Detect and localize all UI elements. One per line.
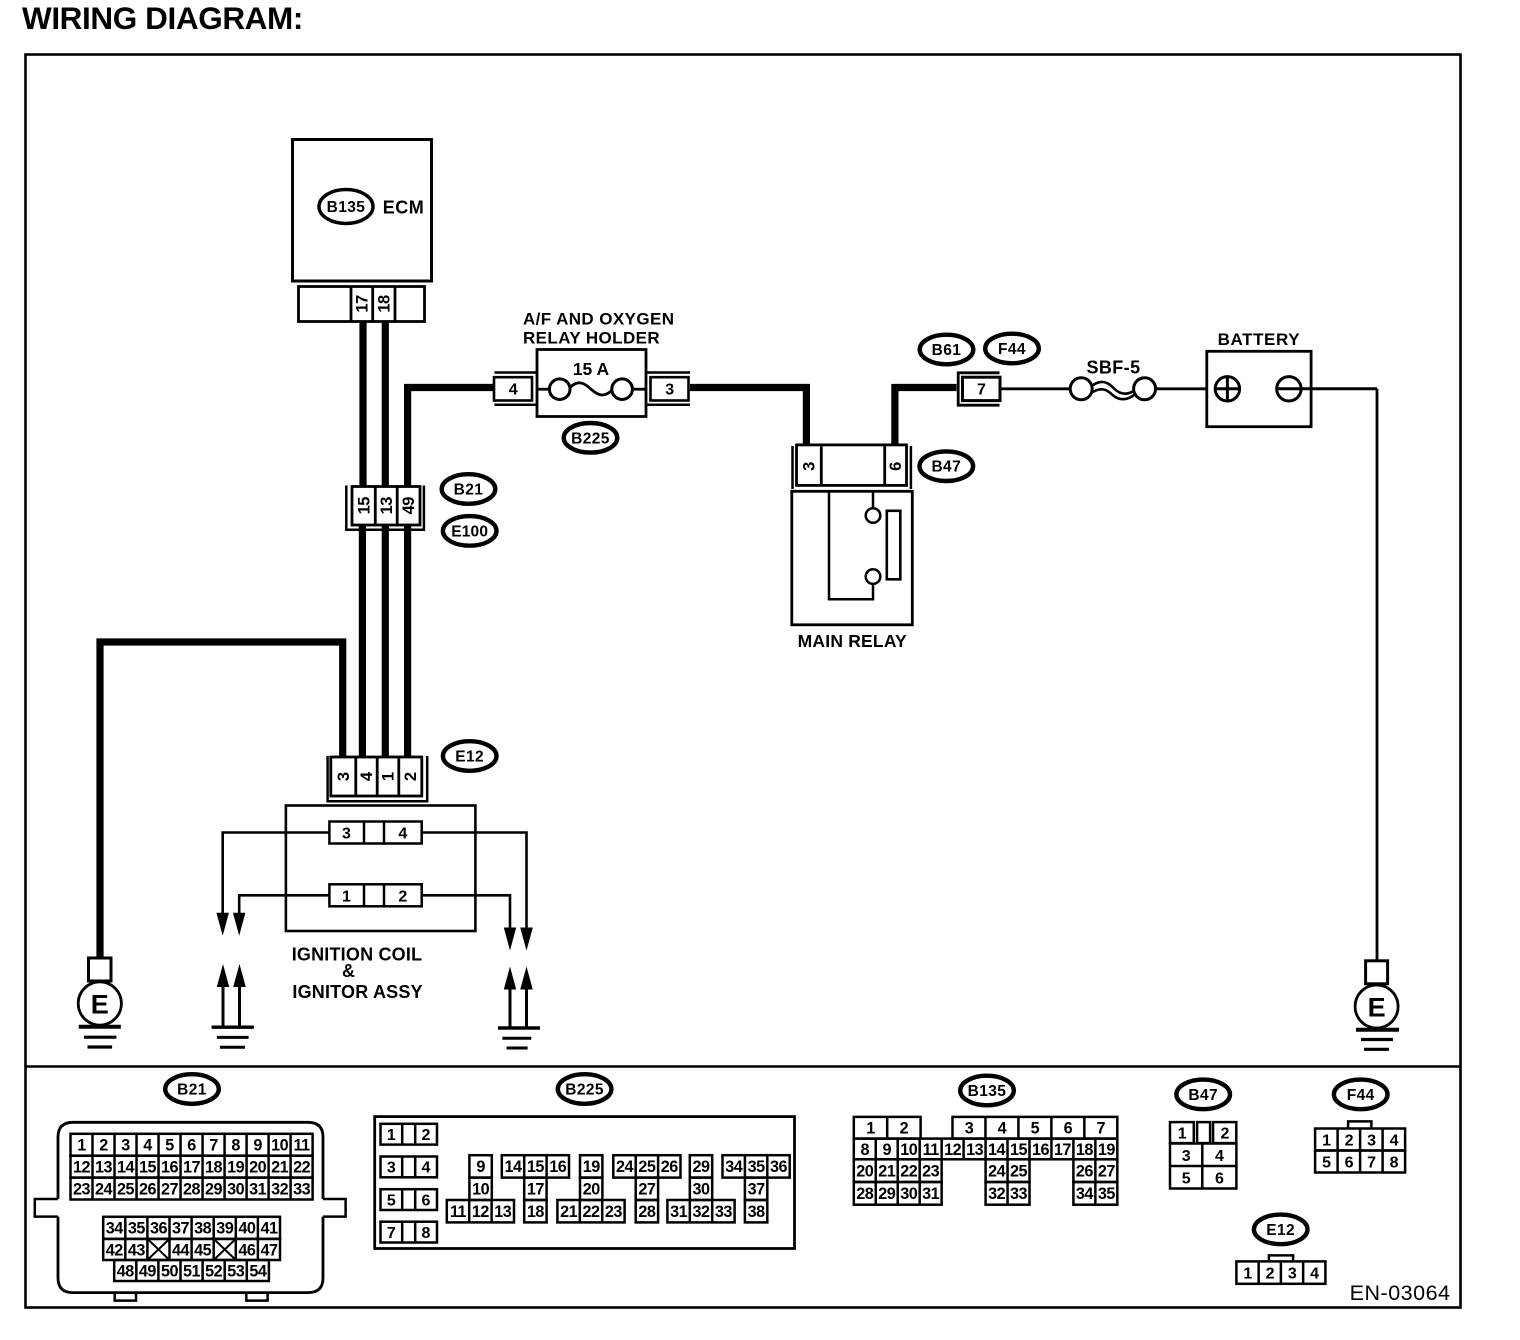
- svg-text:54: 54: [249, 1262, 267, 1280]
- svg-text:43: 43: [128, 1241, 146, 1259]
- svg-text:3: 3: [665, 382, 674, 399]
- svg-text:15: 15: [355, 497, 373, 515]
- F44 housing tab: [1348, 1121, 1371, 1128]
- B135 pins 8-19: [854, 1139, 1118, 1160]
- svg-text:B47: B47: [931, 459, 961, 476]
- svg-text:WIRING DIAGRAM:: WIRING DIAGRAM:: [22, 0, 303, 36]
- wire main relay pin6 to connector B61 pin7: [895, 388, 957, 447]
- connector label F44 bottom: [1334, 1080, 1388, 1110]
- ground symbol spark right: [498, 1026, 540, 1029]
- fuse symbol element: [570, 383, 612, 395]
- svg-text:51: 51: [183, 1262, 201, 1280]
- svg-text:15: 15: [527, 1158, 545, 1176]
- svg-text:33: 33: [715, 1203, 733, 1221]
- svg-text:18: 18: [1076, 1141, 1094, 1159]
- svg-text:34: 34: [106, 1220, 124, 1238]
- svg-text:B21: B21: [454, 482, 484, 499]
- B21 pins 42-47 with keyed cells: [103, 1239, 280, 1260]
- svg-text:IGNITOR ASSY: IGNITOR ASSY: [292, 982, 422, 1002]
- svg-text:31: 31: [670, 1203, 688, 1221]
- wire ECM pin18 to B21 pin13: [382, 321, 389, 487]
- connector B21 housing: [58, 1122, 323, 1292]
- connector label B61: [920, 335, 974, 365]
- svg-text:47: 47: [260, 1241, 278, 1259]
- svg-text:38: 38: [748, 1203, 766, 1221]
- svg-text:7: 7: [977, 382, 986, 399]
- svg-text:8: 8: [861, 1141, 870, 1159]
- battery plus terminal: [1215, 377, 1239, 401]
- svg-text:RELAY HOLDER: RELAY HOLDER: [523, 329, 660, 348]
- ignition coil box: [286, 806, 476, 932]
- svg-text:30: 30: [692, 1181, 710, 1199]
- svg-text:41: 41: [260, 1220, 278, 1238]
- svg-text:36: 36: [770, 1158, 788, 1176]
- main relay contact upper: [866, 508, 881, 523]
- wire ECM pin17 to B21 pin15: [359, 321, 366, 487]
- svg-text:4: 4: [1390, 1132, 1399, 1149]
- fuse symbol left terminal: [549, 379, 570, 400]
- relay holder connector 4 rails: [495, 371, 538, 374]
- svg-text:35: 35: [748, 1158, 766, 1176]
- svg-text:23: 23: [73, 1180, 91, 1198]
- svg-text:4: 4: [358, 771, 376, 781]
- connector label F44: [985, 334, 1039, 364]
- svg-text:6: 6: [1215, 1170, 1224, 1187]
- svg-text:24: 24: [95, 1180, 113, 1198]
- spark gap arrows right down: [504, 928, 516, 951]
- svg-text:9: 9: [253, 1137, 262, 1155]
- svg-text:1: 1: [380, 772, 398, 781]
- fuse SBF-5 right terminal: [1134, 378, 1156, 400]
- svg-text:1: 1: [1243, 1265, 1252, 1282]
- B21 pins 34-41: [103, 1217, 280, 1239]
- svg-text:37: 37: [748, 1181, 766, 1199]
- B135 pins 20-23: [854, 1159, 942, 1182]
- svg-text:33: 33: [293, 1180, 311, 1198]
- svg-text:32: 32: [988, 1185, 1006, 1203]
- svg-text:40: 40: [238, 1220, 256, 1238]
- spark gap arrows right up: [504, 967, 516, 990]
- B47 pins 3-6: [1170, 1144, 1236, 1189]
- svg-text:45: 45: [194, 1241, 212, 1259]
- ground symbol left: [79, 1025, 121, 1029]
- connector E12 bracket: [328, 756, 428, 801]
- svg-text:35: 35: [1098, 1185, 1116, 1203]
- svg-text:E: E: [1368, 992, 1386, 1022]
- svg-text:3: 3: [1182, 1148, 1191, 1165]
- ground E left circle: [78, 982, 121, 1025]
- svg-text:17: 17: [527, 1181, 545, 1199]
- svg-text:28: 28: [856, 1185, 874, 1203]
- svg-text:9: 9: [476, 1158, 485, 1176]
- svg-text:2: 2: [1345, 1132, 1354, 1149]
- svg-text:31: 31: [922, 1185, 940, 1203]
- svg-text:10: 10: [900, 1141, 918, 1159]
- svg-text:4: 4: [143, 1137, 152, 1155]
- svg-text:&: &: [342, 961, 355, 981]
- svg-text:12: 12: [73, 1158, 91, 1176]
- svg-text:18: 18: [375, 295, 393, 313]
- svg-text:21: 21: [271, 1158, 289, 1176]
- svg-text:5: 5: [1182, 1170, 1191, 1187]
- svg-text:25: 25: [638, 1158, 656, 1176]
- svg-text:50: 50: [161, 1262, 179, 1280]
- fuse symbol right terminal: [612, 379, 633, 400]
- svg-text:12: 12: [472, 1203, 490, 1221]
- connector label B47 bottom: [1176, 1080, 1230, 1110]
- B21 housing bottom tabs: [115, 1293, 136, 1301]
- wire B21 pin15 to E12 pin4: [359, 524, 366, 757]
- B225 pins 34-38 group: [723, 1155, 790, 1177]
- wire B21 pin13 to E12 pin1: [382, 524, 389, 757]
- svg-text:4: 4: [509, 382, 518, 399]
- svg-text:F44: F44: [1347, 1087, 1375, 1104]
- svg-text:6: 6: [1064, 1120, 1073, 1138]
- svg-text:14: 14: [504, 1158, 522, 1176]
- svg-text:12: 12: [944, 1141, 962, 1159]
- B47 pin 1: [1170, 1122, 1194, 1143]
- svg-text:16: 16: [549, 1158, 567, 1176]
- svg-text:B61: B61: [932, 342, 962, 359]
- svg-text:36: 36: [150, 1220, 168, 1238]
- svg-text:11: 11: [450, 1203, 467, 1221]
- svg-text:28: 28: [638, 1203, 656, 1221]
- svg-text:44: 44: [172, 1241, 190, 1259]
- battery box: [1207, 351, 1311, 426]
- svg-text:ECM: ECM: [383, 197, 425, 217]
- svg-text:27: 27: [1098, 1162, 1116, 1180]
- connector label B21: [442, 474, 496, 504]
- B225 pins 24-28 group: [613, 1155, 680, 1177]
- svg-text:B47: B47: [1188, 1087, 1218, 1104]
- svg-text:30: 30: [900, 1185, 918, 1203]
- svg-text:14: 14: [988, 1141, 1006, 1159]
- connector label E12 bottom: [1254, 1215, 1308, 1245]
- svg-text:1: 1: [1322, 1132, 1331, 1149]
- svg-text:13: 13: [95, 1158, 113, 1176]
- svg-text:27: 27: [638, 1181, 656, 1199]
- main relay armature bar: [887, 511, 901, 580]
- svg-text:4: 4: [398, 826, 407, 843]
- svg-text:6: 6: [887, 462, 905, 471]
- svg-text:15: 15: [139, 1158, 157, 1176]
- svg-text:5: 5: [165, 1137, 174, 1155]
- svg-text:B135: B135: [327, 199, 366, 216]
- svg-text:1: 1: [77, 1137, 86, 1155]
- main relay body: [792, 491, 913, 625]
- svg-text:52: 52: [205, 1262, 223, 1280]
- svg-text:18: 18: [205, 1158, 223, 1176]
- svg-text:53: 53: [227, 1262, 245, 1280]
- svg-text:6: 6: [1345, 1154, 1354, 1171]
- svg-text:5: 5: [387, 1192, 396, 1209]
- svg-text:19: 19: [227, 1158, 245, 1176]
- main relay coil circuit: [829, 492, 873, 599]
- svg-text:B21: B21: [177, 1082, 207, 1099]
- svg-text:49: 49: [400, 497, 418, 515]
- svg-text:3: 3: [965, 1120, 974, 1138]
- svg-text:25: 25: [1010, 1162, 1028, 1180]
- F44 pins 1-4: [1315, 1129, 1405, 1151]
- svg-text:E12: E12: [455, 749, 484, 766]
- svg-text:49: 49: [139, 1262, 157, 1280]
- fuse holder lead left: [537, 388, 550, 391]
- svg-text:20: 20: [583, 1181, 601, 1199]
- ignition coil connector 3-4: [329, 822, 421, 844]
- connector B61/F44 pin 7 inner: [963, 377, 1001, 400]
- svg-text:14: 14: [117, 1158, 135, 1176]
- ECM connector strip outline: [299, 287, 425, 322]
- svg-text:1: 1: [866, 1120, 875, 1138]
- B21 pins 48-54: [114, 1260, 269, 1281]
- svg-text:34: 34: [1076, 1185, 1094, 1203]
- svg-text:24: 24: [616, 1158, 634, 1176]
- B135 pins 1-2: [854, 1117, 921, 1139]
- svg-text:4: 4: [422, 1160, 431, 1177]
- wire coil 1 to spark gap: [239, 895, 329, 913]
- svg-text:2: 2: [1220, 1125, 1229, 1142]
- svg-text:29: 29: [205, 1180, 223, 1198]
- svg-text:18: 18: [527, 1203, 545, 1221]
- connector B21/E100 bracket: [346, 486, 424, 530]
- svg-text:13: 13: [966, 1141, 984, 1159]
- svg-text:5: 5: [1322, 1154, 1331, 1171]
- svg-text:3: 3: [342, 826, 351, 843]
- B21 housing right wing: [323, 1199, 346, 1217]
- svg-text:3: 3: [121, 1137, 130, 1155]
- connector E12 cell box: [331, 757, 422, 796]
- svg-text:21: 21: [560, 1203, 578, 1221]
- svg-text:34: 34: [725, 1158, 743, 1176]
- svg-text:E100: E100: [451, 523, 488, 540]
- svg-text:20: 20: [856, 1162, 874, 1180]
- svg-text:2: 2: [1266, 1265, 1275, 1282]
- svg-text:15 A: 15 A: [573, 359, 610, 379]
- svg-text:29: 29: [692, 1158, 710, 1176]
- relay holder connector 3 rails: [646, 371, 690, 374]
- svg-text:B135: B135: [968, 1083, 1007, 1100]
- ground symbol right: [1356, 1028, 1399, 1032]
- main relay contact lower: [866, 569, 881, 584]
- svg-text:16: 16: [1032, 1141, 1050, 1159]
- svg-text:19: 19: [1098, 1141, 1116, 1159]
- svg-text:29: 29: [878, 1185, 896, 1203]
- ECM box B135: [293, 140, 432, 282]
- svg-text:26: 26: [1076, 1162, 1094, 1180]
- svg-text:17: 17: [353, 295, 371, 313]
- B21 housing left wing: [35, 1199, 58, 1217]
- svg-text:17: 17: [183, 1158, 201, 1176]
- svg-text:2: 2: [900, 1120, 909, 1138]
- relay holder box B225: [537, 350, 646, 417]
- svg-text:3: 3: [1288, 1265, 1297, 1282]
- svg-text:23: 23: [605, 1203, 623, 1221]
- svg-text:1: 1: [1178, 1125, 1187, 1142]
- svg-text:13: 13: [494, 1203, 512, 1221]
- B225 pins 9-13 group: [469, 1155, 491, 1177]
- svg-text:32: 32: [692, 1203, 710, 1221]
- ground E left terminal box: [89, 958, 112, 981]
- svg-text:8: 8: [231, 1137, 240, 1155]
- svg-text:4: 4: [998, 1120, 1007, 1138]
- wire coil 2 to spark gap: [422, 895, 510, 927]
- svg-text:2: 2: [422, 1127, 431, 1144]
- svg-text:28: 28: [183, 1180, 201, 1198]
- B135 pins 26-27: [1073, 1159, 1117, 1182]
- B225 pins 19-23 group: [580, 1155, 602, 1177]
- connector label E100: [443, 516, 497, 546]
- connector label B21 bottom: [165, 1074, 219, 1104]
- connector label B135: [319, 190, 373, 224]
- B225 pins 5-6: [381, 1189, 438, 1210]
- main relay connector bracket: [791, 446, 794, 489]
- svg-text:38: 38: [194, 1220, 212, 1238]
- wire ground E to E12 pin3: [100, 642, 343, 958]
- B135 pins 24-25: [986, 1159, 1030, 1182]
- fuse SBF-5 element ribbon: [1092, 382, 1135, 394]
- B225 pins 14-18 group: [502, 1155, 569, 1177]
- B135 pins 3-7: [953, 1117, 1118, 1139]
- svg-text:4: 4: [1215, 1148, 1224, 1165]
- svg-text:F44: F44: [998, 341, 1026, 358]
- svg-text:22: 22: [293, 1158, 311, 1176]
- main relay connector strip: [797, 445, 907, 486]
- svg-text:6: 6: [187, 1137, 196, 1155]
- ground symbol spark left: [212, 1025, 254, 1028]
- svg-text:2: 2: [99, 1137, 108, 1155]
- spark gap arrows left up: [217, 964, 229, 987]
- svg-text:IGNITION COIL: IGNITION COIL: [292, 945, 423, 965]
- svg-text:10: 10: [271, 1137, 289, 1155]
- B225 pins 3-4: [381, 1157, 438, 1178]
- svg-text:7: 7: [209, 1137, 218, 1155]
- svg-text:SBF-5: SBF-5: [1086, 358, 1140, 378]
- svg-text:35: 35: [128, 1220, 146, 1238]
- svg-text:30: 30: [227, 1180, 245, 1198]
- svg-text:33: 33: [1010, 1185, 1028, 1203]
- svg-text:B225: B225: [565, 1082, 604, 1099]
- relay holder pin 3: [651, 377, 689, 400]
- B21 pins 12-22: [71, 1156, 313, 1178]
- svg-text:7: 7: [1367, 1154, 1376, 1171]
- svg-text:31: 31: [249, 1180, 267, 1198]
- svg-text:24: 24: [988, 1162, 1006, 1180]
- svg-text:A/F AND OXYGEN: A/F AND OXYGEN: [523, 310, 674, 329]
- connector B21/E100 cell box: [352, 487, 420, 526]
- connector label B135 bottom: [960, 1076, 1014, 1106]
- F44 pins 5-8: [1315, 1151, 1405, 1173]
- separator line above connector pinout section: [26, 1065, 1461, 1068]
- svg-text:10: 10: [472, 1181, 490, 1199]
- svg-text:48: 48: [117, 1262, 135, 1280]
- B47 pin 2: [1213, 1122, 1236, 1143]
- B47 key slot: [1197, 1122, 1210, 1143]
- relay holder pin 4: [494, 377, 532, 400]
- svg-text:11: 11: [923, 1141, 940, 1159]
- svg-text:B225: B225: [571, 430, 610, 447]
- connector label B225 bottom: [558, 1074, 612, 1104]
- svg-text:37: 37: [172, 1220, 190, 1238]
- svg-text:11: 11: [294, 1137, 311, 1155]
- svg-text:26: 26: [661, 1158, 679, 1176]
- svg-text:26: 26: [139, 1180, 157, 1198]
- fuse holder lead right: [632, 388, 646, 391]
- svg-text:42: 42: [106, 1241, 124, 1259]
- wire relay holder pin3 to main relay pin3: [690, 388, 806, 447]
- connector B225 housing: [375, 1117, 795, 1249]
- svg-text:EN-03064: EN-03064: [1350, 1281, 1451, 1305]
- svg-text:15: 15: [1010, 1141, 1028, 1159]
- svg-text:8: 8: [422, 1225, 431, 1242]
- wire junction to relay holder pin4 and B21 pin49: [408, 388, 494, 488]
- wire B21 pin49 to E12 pin2: [404, 524, 411, 757]
- B135 pins 34-35: [1073, 1182, 1117, 1205]
- main relay contact lead: [872, 492, 875, 508]
- svg-text:22: 22: [900, 1162, 918, 1180]
- B21 pins 1-11: [71, 1134, 313, 1156]
- svg-text:2: 2: [402, 772, 420, 781]
- connector label B225: [564, 423, 618, 453]
- wire fuse to battery plus: [1156, 387, 1207, 390]
- svg-text:3: 3: [387, 1160, 396, 1177]
- wire coil 4 to spark gap: [422, 833, 527, 928]
- B135 pins 32-33: [986, 1182, 1030, 1205]
- svg-text:25: 25: [117, 1180, 135, 1198]
- ground E right terminal box: [1366, 961, 1388, 984]
- svg-text:BATTERY: BATTERY: [1218, 330, 1301, 349]
- ground E right circle: [1355, 985, 1398, 1028]
- svg-text:7: 7: [1097, 1120, 1106, 1138]
- svg-text:7: 7: [387, 1225, 396, 1242]
- svg-text:32: 32: [271, 1180, 289, 1198]
- svg-text:46: 46: [238, 1241, 256, 1259]
- wire pin7 to fuse SBF-5: [1001, 387, 1070, 390]
- svg-text:1: 1: [342, 889, 351, 906]
- svg-text:23: 23: [922, 1162, 940, 1180]
- svg-text:3: 3: [1367, 1132, 1376, 1149]
- svg-text:16: 16: [161, 1158, 179, 1176]
- wire coil 3 to spark gap: [223, 833, 330, 914]
- wire battery minus to ground E: [1277, 387, 1377, 390]
- svg-text:3: 3: [801, 462, 819, 471]
- svg-text:5: 5: [1031, 1120, 1040, 1138]
- svg-text:17: 17: [1054, 1141, 1072, 1159]
- svg-text:20: 20: [249, 1158, 267, 1176]
- svg-text:MAIN RELAY: MAIN RELAY: [798, 631, 907, 651]
- B225 pins 7-8: [381, 1222, 438, 1243]
- B225 pins 1-2: [381, 1124, 438, 1145]
- svg-text:13: 13: [378, 497, 396, 515]
- B135 pins 28-31: [854, 1182, 942, 1205]
- E12 housing tab: [1269, 1255, 1293, 1261]
- connector label B47: [920, 451, 974, 481]
- svg-text:E: E: [91, 989, 109, 1019]
- svg-text:21: 21: [878, 1162, 896, 1180]
- connector label E12: [443, 741, 497, 771]
- svg-text:19: 19: [583, 1158, 601, 1176]
- connector B61/F44 pin 7 outer bracket: [958, 373, 999, 405]
- svg-text:39: 39: [216, 1220, 234, 1238]
- svg-text:4: 4: [1310, 1265, 1319, 1282]
- svg-text:2: 2: [398, 889, 407, 906]
- spark gap arrows left down: [216, 913, 229, 936]
- ECM strip cell dividers: [350, 287, 353, 322]
- svg-text:3: 3: [335, 772, 353, 781]
- svg-text:9: 9: [882, 1141, 891, 1159]
- svg-text:22: 22: [582, 1203, 600, 1221]
- ignition coil connector 1-2: [329, 884, 421, 906]
- B21 pins 23-33: [71, 1178, 313, 1200]
